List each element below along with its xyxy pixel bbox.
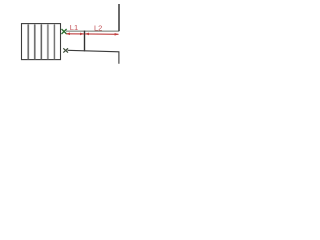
terminal X1 (green cross, upper)	[62, 29, 67, 34]
svg-text:L1: L1	[70, 23, 78, 32]
lower wire from terminal, sloping to right drop	[68, 50, 119, 64]
heater block outline	[22, 24, 61, 60]
supply riser (top right vertical wire)	[118, 4, 120, 31]
heater block internal plate line 3	[40, 24, 42, 59]
heater block internal plate line 2	[34, 24, 36, 59]
heater block internal plate lines (soft halo underlay)	[28, 24, 54, 59]
junction extension line at L1/L2 boundary	[84, 31, 86, 52]
terminal X2 (dark cross, lower)	[63, 48, 68, 52]
heater block internal plate line 4	[47, 24, 49, 59]
upper wire from terminal to riser	[66, 30, 119, 32]
dimension line L2 (red, with outward arrows)	[85, 33, 119, 36]
heater block internal plate line 5	[53, 24, 55, 59]
svg-text:L2: L2	[94, 24, 102, 33]
dimension line L1 (red, with outward arrows)	[66, 33, 84, 36]
heater block internal plate line 1	[27, 24, 29, 59]
